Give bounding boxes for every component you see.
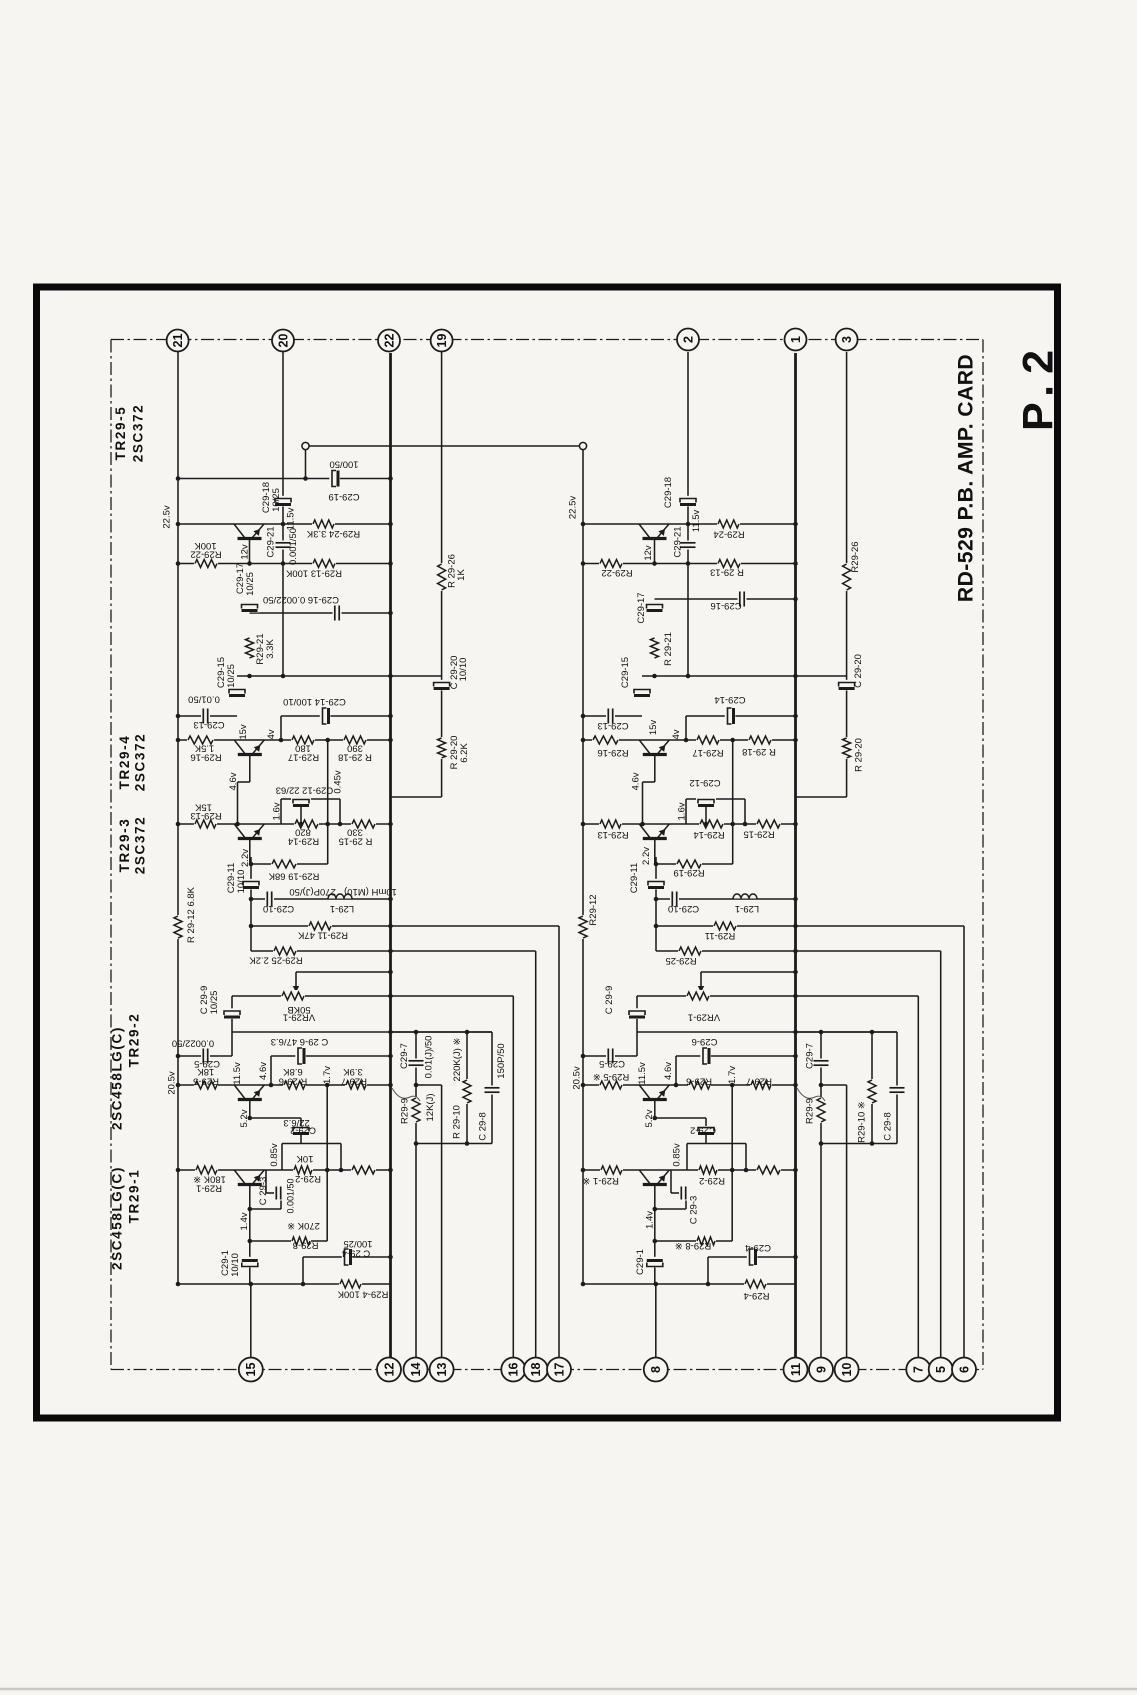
svg-text:C 29-3: C 29-3 bbox=[258, 1177, 269, 1206]
junction dots ch1 bbox=[176, 522, 181, 527]
resistor R29-2 ch1 bbox=[293, 1164, 313, 1176]
capacitor C29-1 ch2 bbox=[645, 1257, 665, 1268]
svg-text:5.2v: 5.2v bbox=[644, 1109, 655, 1127]
wire C29-4 branch ch2 bbox=[708, 1256, 796, 1258]
transistor TR29-4 ch1 bbox=[234, 741, 265, 757]
card boundary dash-dot line (right) bbox=[982, 340, 984, 1370]
wire bias chain bottom corner ch1 bbox=[391, 796, 442, 798]
svg-text:P.2: P.2 bbox=[1015, 339, 1063, 431]
capacitor C29-5 ch2 bbox=[606, 1048, 615, 1065]
capacitor C29-12 ch2 bbox=[696, 797, 716, 808]
svg-text:C 29-3: C 29-3 bbox=[689, 1196, 700, 1225]
svg-text:3.9K: 3.9K bbox=[343, 1066, 363, 1077]
svg-text:C29-18: C29-18 bbox=[663, 477, 674, 508]
wire collector/emitter rail TR29-3 ch1 bbox=[178, 823, 391, 825]
svg-text:0.0022/50: 0.0022/50 bbox=[172, 1037, 214, 1048]
svg-text:R29-1: R29-1 bbox=[196, 1182, 222, 1193]
resistor R29-22 ch1 bbox=[194, 558, 218, 570]
svg-text:13: 13 bbox=[435, 1363, 449, 1377]
svg-text:1.7v: 1.7v bbox=[322, 1066, 333, 1084]
resistor R29-21 ch1 bbox=[244, 637, 256, 659]
wire decoupling rail (C29-15 top) ch2 bbox=[642, 675, 847, 677]
wire C29-16 feedback rail ch1 bbox=[250, 612, 391, 614]
svg-text:11.5v: 11.5v bbox=[286, 507, 297, 530]
svg-text:R29-13: R29-13 bbox=[190, 810, 221, 821]
svg-text:C29-16: C29-16 bbox=[710, 600, 741, 611]
connector pin 14 bbox=[404, 1358, 428, 1382]
wire base rail TR29-5 ch2 bbox=[583, 563, 796, 565]
wire C29-5 branch ch2 bbox=[583, 1055, 637, 1057]
wire C29-9 vertical ch1 bbox=[231, 996, 233, 1056]
wire VR29-1 wiper lead ch2 bbox=[701, 971, 796, 973]
wire R29-9/R29-10 box bottom ch2 bbox=[821, 1143, 897, 1145]
capacitor C29-3 ch2 bbox=[679, 1186, 688, 1201]
svg-text:C29-11: C29-11 bbox=[629, 863, 640, 893]
svg-text:C29-1: C29-1 bbox=[635, 1249, 646, 1275]
wire collector/emitter rail TR29-1 ch1 bbox=[178, 1169, 391, 1171]
svg-text:270K ※: 270K ※ bbox=[287, 1220, 320, 1231]
wire collector/emitter rail TR29-2 ch2 bbox=[583, 1084, 796, 1086]
svg-text:1.6v: 1.6v bbox=[272, 802, 283, 820]
svg-text:18K: 18K bbox=[197, 1066, 215, 1077]
svg-text:2SC372: 2SC372 bbox=[133, 733, 148, 791]
resistor R29-19 ch1 bbox=[271, 858, 297, 870]
svg-text:14: 14 bbox=[409, 1363, 423, 1377]
resistor R29-10 ch2 bbox=[866, 1079, 878, 1104]
svg-text:R29-19 68K: R29-19 68K bbox=[268, 870, 319, 881]
svg-text:2SC458LG(C): 2SC458LG(C) bbox=[110, 1166, 125, 1270]
svg-text:C29-21: C29-21 bbox=[266, 526, 277, 557]
svg-text:15v: 15v bbox=[238, 724, 249, 740]
svg-text:4.6v: 4.6v bbox=[258, 1062, 269, 1080]
outer border frame of schematic sheet bbox=[37, 287, 1058, 1418]
wire L29-1/C29-10 branch ch1 bbox=[251, 898, 391, 900]
svg-text:R 29-6: R 29-6 bbox=[279, 1075, 308, 1086]
connector pin 21 bbox=[167, 330, 189, 352]
svg-text:R29-16: R29-16 bbox=[190, 751, 221, 762]
svg-text:C29-12 22/63: C29-12 22/63 bbox=[276, 784, 334, 795]
wire connector branch lower ch1 bbox=[441, 1085, 443, 1358]
resistor R29-14 ch1 bbox=[294, 818, 319, 830]
wire VR29-1 rail ch1 bbox=[232, 995, 513, 997]
capacitor C29-17 ch1 bbox=[240, 602, 260, 613]
svg-text:R29-8: R29-8 bbox=[293, 1239, 319, 1250]
wire R29-19 branch ch1 bbox=[251, 863, 328, 865]
capacitor C29-11 ch1 bbox=[241, 879, 261, 890]
svg-text:R29-4: R29-4 bbox=[744, 1290, 770, 1301]
wire collector rail TR29-5 ch2 bbox=[583, 523, 796, 525]
wire C29-2 interstage rail ch2 bbox=[687, 1143, 746, 1145]
wire R29-25 branch ch1 bbox=[251, 950, 536, 952]
svg-text:10/25: 10/25 bbox=[209, 991, 220, 1015]
wire connector line C ch2 bbox=[963, 926, 965, 1358]
resistor R29-18 ch1 bbox=[343, 734, 367, 746]
resistor R29-7 ch1 bbox=[345, 1079, 367, 1091]
svg-text:RD-529 P.B. AMP. CARD: RD-529 P.B. AMP. CARD bbox=[955, 354, 978, 602]
wire base node TR29-1 ch2 bbox=[655, 1208, 686, 1210]
wire emitter network vertical (C29-11) ch2 bbox=[655, 857, 657, 951]
svg-text:R 29-21: R 29-21 bbox=[663, 632, 674, 666]
resistor R29-26 ch2 bbox=[841, 563, 853, 591]
wire R29-9/R29-10 box top ch1 bbox=[391, 1031, 493, 1033]
svg-text:6.8K: 6.8K bbox=[283, 1066, 303, 1077]
wire connector line B ch2 bbox=[940, 951, 942, 1358]
connector pin 17 bbox=[547, 1358, 571, 1382]
wire connector branch (C29-7) ch1 bbox=[415, 1032, 417, 1358]
svg-text:R29-13: R29-13 bbox=[597, 829, 628, 840]
potentiometer VR29-1 ch1 bbox=[281, 990, 305, 1002]
capacitor C29-4 ch2 bbox=[747, 1247, 758, 1267]
test point terminal right bbox=[579, 442, 586, 449]
svg-text:17: 17 bbox=[552, 1363, 566, 1377]
wire emitter network vertical (C29-11) ch1 bbox=[250, 857, 252, 951]
wire connector branch (C29-7) ch2 bbox=[820, 1032, 822, 1358]
svg-text:12v: 12v bbox=[240, 544, 251, 560]
svg-text:R 29-18: R 29-18 bbox=[742, 746, 776, 757]
svg-text:R29-25: R29-25 bbox=[665, 955, 696, 966]
wire main ground/return bus ch2 bbox=[794, 353, 797, 1358]
capacitor C29-8 ch2 bbox=[889, 1086, 906, 1095]
capacitor C29-3 ch1 bbox=[274, 1186, 283, 1201]
svg-text:22: 22 bbox=[382, 334, 396, 348]
svg-text:C 29-20: C 29-20 bbox=[853, 654, 864, 688]
svg-text:9: 9 bbox=[814, 1366, 828, 1373]
wire R29-25 branch ch2 bbox=[656, 950, 941, 952]
svg-text:R 29-13: R 29-13 bbox=[710, 566, 744, 577]
wire connector line C ch1 bbox=[558, 926, 560, 1358]
node 0.45V vertical ch2 bbox=[732, 740, 734, 864]
resistor R29-3 ch1 bbox=[351, 1164, 376, 1176]
resistor R29-1 ch2 bbox=[600, 1164, 623, 1176]
svg-text:R29-22: R29-22 bbox=[601, 567, 632, 578]
svg-text:10K: 10K bbox=[296, 1153, 314, 1164]
resistor R29-4 ch2 bbox=[744, 1278, 767, 1290]
svg-text:R29-22: R29-22 bbox=[190, 548, 221, 559]
capacitor C29-13 ch2 bbox=[606, 708, 615, 725]
resistor R29-4 ch1 bbox=[339, 1278, 362, 1290]
wire connector line A ch1 bbox=[512, 996, 514, 1358]
svg-text:TR29-2: TR29-2 bbox=[127, 1013, 142, 1068]
resistor R29-10 ch1 bbox=[461, 1079, 473, 1104]
transistor TR29-3 ch2 bbox=[639, 825, 670, 841]
svg-text:R29-19: R29-19 bbox=[673, 867, 704, 878]
svg-text:VR29-1: VR29-1 bbox=[283, 1011, 315, 1022]
svg-text:R29-8 ※: R29-8 ※ bbox=[675, 1240, 712, 1251]
wire bottom return rail ch1 bbox=[178, 1283, 391, 1285]
capacitor C29-9 ch2 bbox=[627, 1008, 647, 1019]
wire L29-1/C29-10 branch ch2 bbox=[656, 898, 796, 900]
capacitor C29-13 ch1 bbox=[201, 708, 210, 725]
svg-text:4v: 4v bbox=[671, 729, 682, 739]
connector pin 18 bbox=[524, 1358, 548, 1382]
svg-text:R 29-10: R 29-10 bbox=[452, 1105, 463, 1139]
wire C29-14 branch ch1 bbox=[281, 715, 391, 717]
capacitor C29-17 ch2 bbox=[645, 602, 665, 613]
svg-text:10/25: 10/25 bbox=[226, 664, 237, 688]
wire C29-14 branch ch2 bbox=[686, 715, 796, 717]
wire output bus (C29-18 line) ch1 bbox=[282, 352, 284, 676]
svg-text:2.2v: 2.2v bbox=[240, 849, 251, 867]
wire connector line B ch1 bbox=[535, 951, 537, 1358]
svg-text:C 29-8: C 29-8 bbox=[478, 1112, 489, 1141]
resistor R29-20 ch1 bbox=[436, 737, 448, 759]
resistor R29-2 ch2 bbox=[698, 1164, 718, 1176]
wire 22.5V supply bus ch2 bbox=[582, 449, 584, 1284]
capacitor C29-7 ch1 bbox=[408, 1059, 425, 1068]
wire C29-4 branch ch1 bbox=[303, 1256, 391, 1258]
svg-text:R29-25 2.2K: R29-25 2.2K bbox=[249, 954, 303, 965]
wire base node TR29-1 ch1 bbox=[250, 1208, 281, 1210]
svg-text:10/10: 10/10 bbox=[458, 658, 469, 682]
resistor R29-24 ch1 bbox=[312, 518, 335, 530]
svg-text:TR29-1: TR29-1 bbox=[127, 1169, 142, 1224]
resistor R29-11 ch2 bbox=[713, 920, 737, 932]
svg-text:C29-7: C29-7 bbox=[399, 1043, 410, 1069]
svg-text:R 29-20: R 29-20 bbox=[854, 738, 865, 772]
svg-text:20: 20 bbox=[276, 334, 290, 348]
capacitor C29-20 ch2 bbox=[837, 680, 857, 691]
svg-text:C29-7: C29-7 bbox=[805, 1043, 816, 1069]
connector pin 5 bbox=[929, 1358, 953, 1382]
svg-text:R 29-15: R 29-15 bbox=[339, 835, 373, 846]
resistor R29-13 (100K) ch2 bbox=[717, 558, 741, 570]
resistor R29-20 ch2 bbox=[841, 737, 853, 759]
capacitor C29-10 ch2 bbox=[670, 891, 679, 908]
capacitor C29-21 ch1 bbox=[275, 541, 292, 550]
svg-text:C29-6: C29-6 bbox=[692, 1036, 718, 1047]
svg-text:R29-14: R29-14 bbox=[693, 829, 724, 840]
capacitor C29-15 ch1 bbox=[227, 687, 247, 698]
transistor TR29-4 ch2 bbox=[639, 741, 670, 757]
svg-text:C29-16 0.0022/50: C29-16 0.0022/50 bbox=[263, 594, 339, 605]
svg-text:18: 18 bbox=[529, 1363, 543, 1377]
wire R29-9/R29-10 box bottom ch1 bbox=[416, 1143, 492, 1145]
svg-text:10/25: 10/25 bbox=[271, 488, 282, 512]
svg-text:C29-5: C29-5 bbox=[599, 1058, 625, 1069]
wire base rail TR29-5 ch1 bbox=[178, 563, 391, 565]
transistor TR29-5 ch1 bbox=[234, 525, 265, 541]
svg-text:4v: 4v bbox=[266, 729, 277, 739]
resistor R29-1 ch1 bbox=[195, 1164, 218, 1176]
svg-text:16: 16 bbox=[507, 1363, 521, 1377]
svg-text:19: 19 bbox=[435, 334, 449, 348]
svg-text:R29-24: R29-24 bbox=[713, 528, 744, 539]
wire connector branch lower ch2 bbox=[846, 1085, 848, 1358]
svg-text:0.01/50: 0.01/50 bbox=[188, 693, 220, 704]
resistor R29-6 ch2 bbox=[688, 1079, 711, 1091]
svg-text:C29-13: C29-13 bbox=[597, 720, 628, 731]
svg-text:R29-15: R29-15 bbox=[743, 828, 774, 839]
hand-drawn correction squiggle near R29-9 ch2 bbox=[797, 1088, 825, 1101]
svg-text:C29-12: C29-12 bbox=[689, 777, 720, 788]
svg-text:R29-12: R29-12 bbox=[588, 894, 599, 925]
svg-text:C29-10: C29-10 bbox=[263, 903, 294, 914]
wire 22.5V supply bus ch1 bbox=[177, 352, 179, 1284]
card boundary dash-dot line (top) bbox=[111, 339, 983, 341]
resistor R29-9 ch2 bbox=[815, 1097, 827, 1123]
svg-text:3: 3 bbox=[840, 336, 854, 343]
svg-text:0.45v: 0.45v bbox=[333, 770, 344, 793]
connector pin 1 bbox=[785, 329, 807, 351]
node 1.7V vertical ch1 bbox=[326, 1085, 328, 1241]
svg-text:20.5v: 20.5v bbox=[167, 1071, 178, 1094]
svg-text:5: 5 bbox=[934, 1366, 948, 1373]
capacitor C29-8 ch1 bbox=[484, 1086, 501, 1095]
resistor R29-5 ch1 bbox=[194, 1079, 218, 1091]
svg-text:C 29-9: C 29-9 bbox=[604, 986, 615, 1015]
svg-text:R29-2: R29-2 bbox=[699, 1175, 725, 1186]
svg-text:R29-17: R29-17 bbox=[288, 751, 319, 762]
inductor L29-1 ch1 bbox=[328, 893, 352, 899]
capacitor C29-20 ch1 bbox=[432, 680, 452, 691]
inductor L29-1 ch2 bbox=[733, 893, 757, 899]
resistor R29-24 ch2 bbox=[717, 518, 740, 530]
connector pin 19 bbox=[431, 330, 453, 352]
svg-text:R 29-18: R 29-18 bbox=[338, 751, 372, 762]
wire connector jumper 14-13 ch2 bbox=[821, 1084, 847, 1086]
svg-text:1.6v: 1.6v bbox=[677, 802, 688, 820]
svg-text:TR29-3: TR29-3 bbox=[117, 818, 132, 873]
wire R29-8 feedback branch ch1 bbox=[250, 1240, 327, 1242]
wire C29-9 vertical ch2 bbox=[636, 996, 638, 1056]
wire C29-6 branch ch2 bbox=[676, 1055, 796, 1057]
svg-text:10mH (M10): 10mH (M10) bbox=[344, 886, 397, 897]
transistor TR29-1 ch2 bbox=[639, 1171, 670, 1187]
capacitor C29-6 ch1 bbox=[295, 1046, 306, 1066]
svg-text:150P/50: 150P/50 bbox=[496, 1043, 507, 1078]
svg-text:C29-2: C29-2 bbox=[690, 1124, 716, 1135]
svg-text:R29-16: R29-16 bbox=[597, 747, 628, 758]
node 0.45V vertical ch1 bbox=[327, 740, 329, 864]
resistor R29-18 ch2 bbox=[748, 734, 772, 746]
wire R29-19 branch ch2 bbox=[656, 863, 733, 865]
wire bias bus (R29-26 branch) ch2 bbox=[846, 352, 848, 797]
svg-text:R29-9: R29-9 bbox=[805, 1098, 816, 1124]
svg-text:0.85v: 0.85v bbox=[672, 1143, 683, 1166]
capacitor C29-2 ch2 bbox=[696, 1125, 716, 1136]
wire collector/emitter rail TR29-3 ch2 bbox=[583, 823, 796, 825]
svg-text:0.85v: 0.85v bbox=[269, 1143, 280, 1166]
resistor R29-16 ch1 bbox=[187, 734, 214, 746]
svg-text:R29-7: R29-7 bbox=[341, 1075, 367, 1086]
resistor R29-9 ch1 bbox=[410, 1097, 422, 1123]
capacitor C29-4 ch1 bbox=[342, 1247, 353, 1267]
svg-text:R29-10 ※: R29-10 ※ bbox=[857, 1101, 868, 1143]
svg-text:4.6v: 4.6v bbox=[228, 772, 239, 790]
capacitor C29-19 ch1 bbox=[329, 469, 340, 489]
svg-text:C29-2: C29-2 bbox=[290, 1124, 316, 1135]
svg-text:8: 8 bbox=[649, 1366, 663, 1373]
svg-text:1.4v: 1.4v bbox=[645, 1211, 656, 1229]
svg-text:12v: 12v bbox=[643, 545, 654, 561]
resistor R29-17 ch1 bbox=[291, 734, 315, 746]
capacitor C29-7 ch2 bbox=[813, 1059, 830, 1068]
resistor R29-13b (15K) ch1 bbox=[194, 818, 217, 830]
wire C29-6 branch ch1 bbox=[271, 1055, 391, 1057]
card boundary dash-dot line (bottom) bbox=[111, 1369, 983, 1371]
connector pin 11 bbox=[784, 1358, 808, 1382]
capacitor C29-18 ch1 bbox=[273, 496, 293, 507]
connector pin 13 bbox=[430, 1358, 454, 1382]
svg-text:220K(J) ※: 220K(J) ※ bbox=[452, 1038, 463, 1082]
wire connector jumper 14-13 ch1 bbox=[416, 1084, 442, 1086]
resistor R29-26 ch1 bbox=[436, 563, 448, 591]
svg-text:R29-7: R29-7 bbox=[746, 1075, 772, 1086]
svg-text:12K(J): 12K(J) bbox=[425, 1094, 436, 1122]
svg-text:22.5v: 22.5v bbox=[162, 505, 173, 528]
resistor R29-19 ch2 bbox=[676, 858, 702, 870]
capacitor C29-12 ch1 bbox=[291, 797, 311, 808]
capacitor C29-6 ch2 bbox=[700, 1046, 711, 1066]
capacitor C29-9 ch1 bbox=[222, 1008, 242, 1019]
wire 22.5V tie between channels with test points bbox=[306, 445, 584, 447]
svg-text:270P(J)/50: 270P(J)/50 bbox=[289, 886, 335, 897]
wire C29-3 branch ch1 bbox=[265, 1170, 267, 1193]
svg-text:6: 6 bbox=[957, 1366, 971, 1373]
wire collector/emitter rail TR29-4 ch1 bbox=[178, 739, 391, 741]
svg-text:0.001/50: 0.001/50 bbox=[286, 1178, 296, 1213]
wire AGC rail (C29-9 bottom) ch1 bbox=[232, 1031, 492, 1033]
wire bias bus (R29-26 branch) ch1 bbox=[441, 352, 443, 797]
svg-text:100/25: 100/25 bbox=[343, 1238, 372, 1249]
node 1.7V vertical ch2 bbox=[731, 1085, 733, 1241]
wire C29-3 branch ch2 bbox=[670, 1170, 672, 1193]
svg-text:TR29-4: TR29-4 bbox=[117, 735, 132, 790]
capacitor C29-1 ch1 bbox=[240, 1257, 260, 1268]
capacitor C29-15 ch2 bbox=[632, 687, 652, 698]
svg-text:0.001/50: 0.001/50 bbox=[288, 528, 299, 565]
resistor R29-12 ch2 bbox=[577, 915, 589, 939]
resistor R29-21 ch2 bbox=[649, 637, 661, 659]
svg-text:R29-11 47K: R29-11 47K bbox=[297, 929, 348, 940]
svg-text:1: 1 bbox=[789, 336, 803, 343]
capacitor C29-11 ch2 bbox=[646, 879, 666, 890]
wire R29-11 branch ch2 bbox=[656, 925, 964, 927]
svg-text:22.5v: 22.5v bbox=[568, 496, 579, 519]
wire AGC rail (C29-9 bottom) ch2 bbox=[637, 1031, 897, 1033]
capacitor C29-21 ch2 bbox=[680, 541, 697, 550]
svg-text:R29-5: R29-5 bbox=[193, 1075, 219, 1086]
connector pin 7 bbox=[906, 1358, 930, 1382]
wire output bus (C29-18 line) ch2 bbox=[687, 352, 689, 676]
resistor R29-11 ch1 bbox=[308, 920, 332, 932]
hand-drawn correction squiggle near R29-9 ch1 bbox=[392, 1088, 420, 1101]
wire bottom return rail ch2 bbox=[583, 1283, 796, 1285]
potentiometer VR29-1 ch2 bbox=[686, 990, 710, 1002]
wire collector/emitter rail TR29-1 ch2 bbox=[583, 1169, 796, 1171]
wire R29-8 feedback branch ch2 bbox=[655, 1240, 732, 1242]
wire VR29-1 rail ch2 bbox=[637, 995, 918, 997]
resistor R29-14 ch2 bbox=[699, 818, 724, 830]
svg-text:100/50: 100/50 bbox=[329, 458, 358, 469]
wire base branch TR29-2 ch2 bbox=[655, 1117, 706, 1119]
svg-text:R29-9: R29-9 bbox=[400, 1098, 411, 1124]
svg-text:R29-2: R29-2 bbox=[295, 1173, 321, 1184]
svg-text:C29-10: C29-10 bbox=[668, 903, 699, 914]
capacitor C29-10 ch1 bbox=[265, 891, 274, 908]
connector pin 22 bbox=[378, 330, 400, 352]
transistor TR29-2 ch2 bbox=[639, 1086, 670, 1102]
wire C29-12 branch ch2 bbox=[686, 798, 745, 800]
svg-text:0.01(J)/50: 0.01(J)/50 bbox=[424, 1036, 435, 1079]
svg-text:R29-17: R29-17 bbox=[692, 747, 723, 758]
wire input connector line ch2 bbox=[655, 1284, 657, 1358]
capacitor C29-14 ch2 bbox=[725, 706, 736, 726]
resistor R29-25 ch2 bbox=[678, 945, 702, 957]
svg-text:C29-21: C29-21 bbox=[673, 526, 684, 557]
svg-text:R29-24 3.3K: R29-24 3.3K bbox=[306, 528, 360, 539]
connector pin 12 bbox=[377, 1358, 401, 1382]
